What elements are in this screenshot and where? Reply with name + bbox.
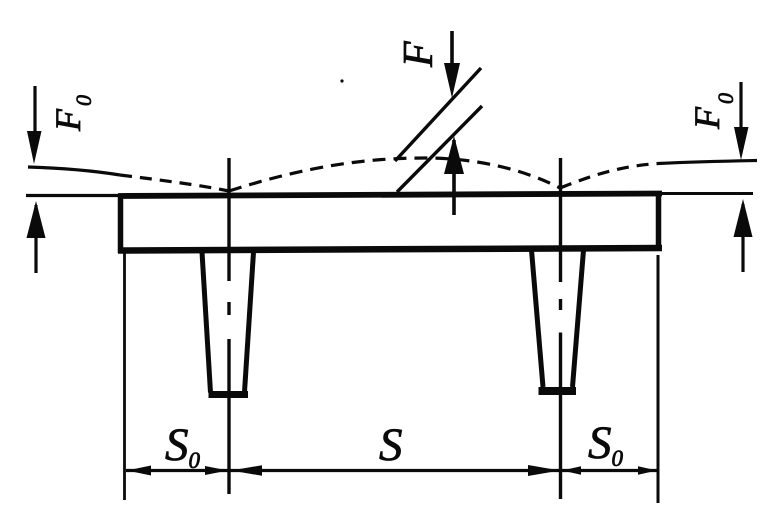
beam bottom edge bbox=[118, 248, 662, 251]
F0 right up-arrow head bbox=[734, 199, 753, 237]
force F down-arrow shaft bbox=[450, 31, 454, 72]
right leg right slant edge bbox=[573, 250, 584, 387]
F0 left down-arrow head bbox=[27, 131, 42, 164]
svg-text:F: F bbox=[396, 41, 442, 68]
dimension line bbox=[126, 469, 658, 472]
deflection curve middle hump (dashed) bbox=[229, 158, 560, 191]
dimension arrow at right extension line (points right) bbox=[638, 466, 657, 475]
reference surface line (right segment) bbox=[660, 192, 753, 195]
dimension arrow at left extension line (points left) bbox=[127, 466, 151, 476]
deflection f up-arrow head bbox=[444, 136, 464, 174]
F0 left up-arrow shaft bbox=[34, 205, 37, 273]
stray scan speck bbox=[340, 79, 343, 82]
deflection curve right approach (dashed) bbox=[560, 164, 658, 189]
left leg left slant edge bbox=[202, 252, 211, 393]
left extension line bbox=[123, 252, 126, 500]
dimension arrow S left end (points left) bbox=[231, 465, 262, 476]
F0 left down-arrow shaft bbox=[33, 86, 36, 140]
F0 right up-arrow shaft bbox=[741, 204, 744, 272]
F0 left up-arrow head bbox=[27, 201, 46, 238]
beam right edge bbox=[656, 191, 662, 251]
deflection curve left outer part (solid-ish) bbox=[28, 167, 120, 175]
right leg left slant edge bbox=[532, 250, 544, 387]
left support centerline (chain line) bbox=[227, 158, 230, 494]
deflection f up-arrow shaft bbox=[452, 140, 456, 215]
left leg bottom foot bar bbox=[209, 391, 249, 398]
svg-text:S: S bbox=[379, 419, 403, 471]
oblique break line upper bbox=[395, 68, 481, 161]
deflection curve left approach (dashed) bbox=[120, 175, 229, 191]
dimension arrow S0-left right end (points right) bbox=[205, 466, 228, 475]
dimension arrow S right end (points right) bbox=[528, 465, 560, 476]
beam left edge bbox=[118, 194, 124, 254]
F0 right down-arrow shaft bbox=[739, 82, 742, 135]
reference surface line (left segment) bbox=[26, 194, 121, 197]
F0 right down-arrow head bbox=[734, 127, 749, 160]
deflection curve right outer part (solid-ish) bbox=[658, 161, 757, 164]
oblique break line lower bbox=[397, 106, 482, 192]
dimension arrow S0-right left end (points left) bbox=[562, 466, 581, 475]
right support centerline (chain line) bbox=[559, 158, 562, 499]
right leg bottom foot bar bbox=[539, 387, 577, 395]
force F down-arrow head bbox=[444, 63, 460, 98]
right extension line bbox=[657, 255, 660, 503]
left leg right slant edge bbox=[245, 252, 254, 392]
beam (spring plate) top edge bbox=[118, 194, 662, 197]
